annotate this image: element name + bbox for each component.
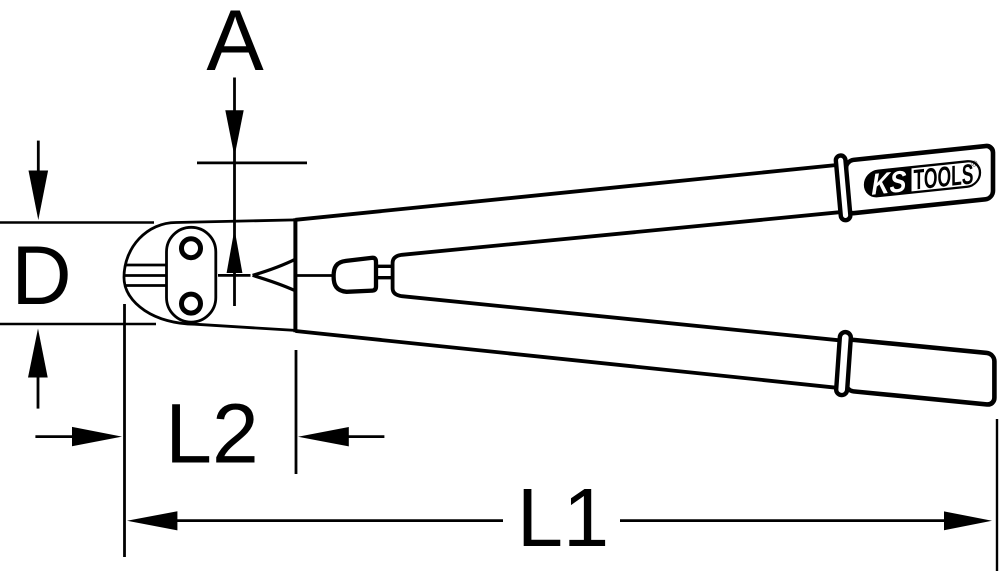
KS logo black panel [865, 167, 912, 197]
dimension L1 right extension line [996, 419, 998, 571]
dimension D top arrowhead [29, 171, 49, 221]
dimension D bottom reference line [0, 323, 156, 326]
dimension L2 right arrow tail [348, 435, 384, 438]
dimension A extension line [233, 78, 236, 307]
svg-text:TOOLS: TOOLS [914, 158, 974, 196]
jaw cutting edge upper [253, 259, 296, 275]
dimension A down arrowhead [225, 110, 243, 156]
upper grip band [835, 155, 850, 220]
upper arm top edge [295, 164, 843, 219]
lower grip body [846, 339, 994, 405]
bolt shank line top [376, 265, 391, 268]
KS TOOLS logo stadium [865, 160, 980, 197]
dimension A up arrowhead [227, 229, 243, 273]
jaw blade line bottom [126, 284, 169, 287]
dimension L1 left arrowhead [127, 511, 177, 530]
bolt shank line bottom [376, 276, 391, 279]
dimension L1 left line segment [176, 519, 503, 522]
head bolt top [182, 239, 201, 258]
dimension L2 right extension line [295, 350, 298, 474]
dimension D top arrow leader [37, 141, 40, 173]
cutter head outline [124, 220, 295, 331]
dimension A tick line bottom [218, 274, 251, 277]
svg-text:A: A [206, 0, 264, 89]
jaw blade line top [127, 264, 169, 267]
lower grip band [836, 332, 851, 396]
svg-text:D: D [11, 228, 71, 322]
svg-text:L2: L2 [165, 387, 258, 481]
jaw blade line middle [124, 274, 168, 277]
head bolt bottom [182, 294, 201, 313]
dimension L2 left arrow tail [35, 435, 73, 438]
upper grip body [846, 145, 993, 214]
svg-text:KS: KS [872, 165, 907, 202]
lower arm bottom edge [295, 331, 842, 388]
head bolt plate capsule [167, 227, 216, 322]
dimension D bottom arrowhead [28, 329, 48, 378]
head right edge line [293, 218, 297, 332]
pivot joint and arm inner edges [393, 212, 845, 341]
jaw cutting edge lower [253, 275, 296, 290]
dimension D top reference line [0, 221, 154, 224]
dimension L2 left extension line [123, 304, 126, 557]
dimension L1 right arrowhead [944, 511, 992, 530]
dimension L1 right line segment [620, 519, 946, 522]
linkage center line [295, 274, 334, 277]
dimension L2 right arrowhead [298, 427, 349, 446]
svg-text:L1: L1 [517, 471, 609, 564]
adjusting nut [334, 258, 376, 292]
dimension L2 left arrowhead [72, 427, 122, 446]
dimension A tick line top [197, 161, 307, 164]
svg-text:®: ® [972, 159, 978, 169]
dimension D bottom arrow leader [37, 377, 40, 409]
